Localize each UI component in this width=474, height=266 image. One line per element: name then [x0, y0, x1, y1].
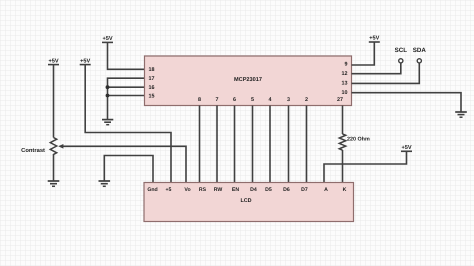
wire pin 13 to SDA [352, 63, 420, 83]
svg-text:Vo: Vo [184, 187, 190, 193]
wire +5V P3 to IC pin 18 [108, 42, 145, 69]
svg-text:18: 18 [149, 67, 155, 73]
svg-text:MCP23017: MCP23017 [234, 77, 262, 83]
ground (LCD Gnd) [99, 181, 111, 186]
svg-text:RW: RW [214, 187, 223, 193]
power +5V P2 (above LCD +5 wire) [80, 64, 91, 66]
svg-text:13: 13 [342, 80, 348, 86]
svg-text:A: A [324, 187, 328, 193]
svg-text:7: 7 [216, 97, 219, 103]
wire pin 9 to +5V P5 [352, 42, 375, 65]
svg-text:3: 3 [287, 97, 290, 103]
wire pin 10 to ground [352, 93, 462, 112]
terminal SCL [395, 47, 408, 63]
svg-text:8: 8 [198, 97, 201, 103]
ground (right) [455, 112, 467, 117]
wire IC pins 17,16,15 ladder to ground [108, 78, 145, 119]
svg-text:K: K [343, 187, 347, 193]
svg-text:12: 12 [342, 71, 348, 77]
svg-text:+5V: +5V [80, 58, 90, 64]
power +5V P4 (right of resistor) [401, 150, 412, 152]
svg-text:2: 2 [305, 97, 308, 103]
ground (ladder) [102, 120, 113, 125]
svg-text:RS: RS [199, 187, 207, 193]
svg-text:+5V: +5V [102, 36, 112, 42]
svg-text:SCL: SCL [395, 47, 408, 54]
svg-text:Gnd: Gnd [147, 187, 157, 193]
wire node A/K/+5V horizontal [324, 151, 407, 182]
wire pin 6 to LCD EN [234, 106, 236, 183]
svg-text:EN: EN [232, 187, 239, 193]
svg-text:17: 17 [149, 76, 155, 82]
power +5V P3 (above IC pin 18) [102, 41, 113, 43]
svg-text:LCD: LCD [240, 198, 251, 204]
power +5V P1 (above Contrast pot) [48, 65, 59, 138]
wire resistor to LCD K [342, 150, 344, 183]
wire pot bottom to ground [53, 155, 55, 182]
power +5V P5 (above pin 9) [369, 41, 380, 43]
svg-text:D5: D5 [265, 187, 272, 193]
wire pin 7 to LCD RW [216, 106, 218, 183]
svg-text:D6: D6 [283, 187, 290, 193]
junction dot pin15 net [106, 94, 110, 98]
svg-text:9: 9 [345, 62, 348, 68]
IC U1 MCP23017 [145, 56, 352, 106]
wire pin 8 to LCD RS [199, 106, 201, 183]
svg-text:SDA: SDA [413, 47, 427, 54]
wire +5V P2 to LCD pin +5 [85, 65, 171, 183]
wire pin 27 to resistor [342, 106, 344, 135]
wire LCD Gnd up-over to ground [104, 156, 153, 183]
svg-text:+5V: +5V [401, 145, 411, 151]
resistor R1 220 Ohm [339, 134, 370, 150]
svg-text:15: 15 [149, 94, 155, 100]
svg-text:+5V: +5V [48, 58, 58, 64]
wire pin 5 to LCD D4 [252, 106, 254, 183]
svg-text:220 Ohm: 220 Ohm [347, 137, 370, 143]
terminal SDA [413, 47, 427, 63]
ground (pot) [48, 181, 60, 186]
wire pin 12 to SCL [352, 63, 401, 73]
wire pin 4 to LCD D5 [269, 106, 271, 183]
LCD module [144, 183, 354, 222]
svg-text:+5: +5 [166, 187, 172, 193]
svg-text:5: 5 [251, 97, 254, 103]
wire pot wiper to LCD pin Vo [63, 146, 187, 182]
wire pin 2 to LCD D7 [306, 106, 308, 183]
potentiometer "Contrast" [21, 138, 63, 156]
svg-text:Contrast: Contrast [21, 147, 45, 154]
svg-text:27: 27 [337, 97, 343, 103]
svg-text:4: 4 [269, 97, 272, 103]
svg-text:+5V: +5V [369, 36, 379, 42]
svg-text:16: 16 [149, 85, 155, 91]
wire pin 3 to LCD D6 [288, 106, 290, 183]
svg-text:10: 10 [342, 90, 348, 96]
junction dot pin16 net [106, 85, 110, 89]
svg-text:D4: D4 [250, 187, 257, 193]
svg-text:D7: D7 [301, 187, 308, 193]
svg-text:6: 6 [233, 97, 236, 103]
